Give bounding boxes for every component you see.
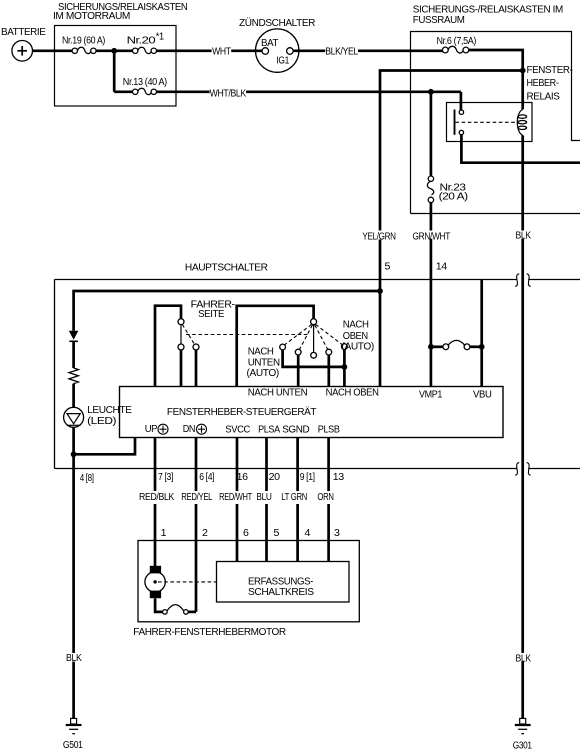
- svg-text:RED/YEL: RED/YEL: [181, 492, 213, 503]
- svg-text:VBU: VBU: [473, 389, 492, 400]
- svg-text:YEL/GRN: YEL/GRN: [362, 231, 395, 242]
- svg-text:Nr.19 (60 A): Nr.19 (60 A): [62, 36, 105, 47]
- svg-text:NACH: NACH: [248, 347, 274, 358]
- svg-text:HAUPTSCHALTER: HAUPTSCHALTER: [185, 263, 268, 274]
- svg-text:9 [1]: 9 [1]: [300, 472, 316, 483]
- svg-text:UNTEN: UNTEN: [248, 358, 280, 369]
- svg-text:SEITE: SEITE: [198, 309, 225, 320]
- svg-text:FENSTERHEBER-STEUERGERÄT: FENSTERHEBER-STEUERGERÄT: [167, 406, 316, 418]
- svg-text:RELAIS: RELAIS: [527, 92, 561, 103]
- svg-text:OBEN: OBEN: [343, 331, 368, 342]
- svg-text:BLK/YEL: BLK/YEL: [325, 47, 358, 58]
- svg-text:16: 16: [237, 472, 249, 483]
- svg-text:HEBER-: HEBER-: [527, 78, 559, 89]
- svg-text:13: 13: [333, 472, 345, 483]
- svg-text:(LED): (LED): [87, 416, 116, 427]
- svg-text:1: 1: [161, 528, 167, 539]
- svg-text:LEUCHTE: LEUCHTE: [87, 405, 132, 416]
- svg-text:UP: UP: [145, 424, 158, 435]
- svg-text:Nr.6 (7,5A): Nr.6 (7,5A): [437, 36, 477, 47]
- svg-text:RED/WHT: RED/WHT: [219, 492, 252, 503]
- svg-text:ERFASSUNGS-: ERFASSUNGS-: [248, 576, 313, 587]
- svg-text:SGND: SGND: [282, 425, 309, 436]
- svg-text:4: 4: [305, 528, 311, 539]
- svg-text:ORN: ORN: [317, 492, 333, 503]
- svg-text:3: 3: [334, 528, 340, 539]
- svg-text:*1: *1: [156, 32, 165, 43]
- svg-text:G501: G501: [63, 740, 83, 750]
- svg-text:WHT/BLK: WHT/BLK: [210, 89, 247, 100]
- svg-text:(AUTO): (AUTO): [247, 368, 279, 379]
- svg-text:RED/BLK: RED/BLK: [139, 492, 175, 503]
- svg-text:4 [8]: 4 [8]: [80, 473, 94, 484]
- svg-text:G301: G301: [513, 740, 533, 750]
- svg-text:5: 5: [385, 262, 391, 273]
- svg-text:(AUTO): (AUTO): [342, 342, 374, 353]
- svg-text:20: 20: [269, 472, 281, 483]
- svg-text:BLK: BLK: [66, 653, 82, 664]
- svg-text:BLU: BLU: [256, 492, 271, 503]
- svg-text:WHT: WHT: [212, 47, 231, 58]
- svg-text:PLSA: PLSA: [258, 425, 280, 436]
- svg-text:NACH OBEN: NACH OBEN: [326, 387, 379, 398]
- svg-text:SCHALTKREIS: SCHALTKREIS: [248, 587, 314, 598]
- svg-text:BLK: BLK: [516, 231, 532, 242]
- svg-text:NACH UNTEN: NACH UNTEN: [248, 388, 308, 399]
- svg-text:FAHRER-FENSTERHEBERMOTOR: FAHRER-FENSTERHEBERMOTOR: [133, 627, 286, 638]
- svg-text:ZÜNDSCHALTER: ZÜNDSCHALTER: [239, 17, 315, 29]
- svg-text:DN: DN: [183, 424, 196, 435]
- svg-text:IM MOTORRAUM: IM MOTORRAUM: [53, 11, 130, 22]
- svg-text:IG1: IG1: [276, 55, 289, 66]
- svg-text:14: 14: [436, 262, 448, 273]
- svg-text:SVCC: SVCC: [225, 425, 250, 436]
- svg-text:LT GRN: LT GRN: [281, 492, 307, 503]
- svg-text:6 [4]: 6 [4]: [199, 472, 215, 483]
- svg-text:(20 A): (20 A): [439, 191, 468, 202]
- svg-text:NACH: NACH: [343, 320, 369, 331]
- svg-text:GRN/WHT: GRN/WHT: [413, 231, 451, 242]
- svg-text:VMP1: VMP1: [419, 389, 443, 400]
- svg-text:BAT: BAT: [261, 38, 278, 49]
- svg-text:FUSSRAUM: FUSSRAUM: [413, 15, 465, 26]
- svg-text:FENSTER-: FENSTER-: [527, 65, 573, 76]
- svg-text:Nr.13 (40 A): Nr.13 (40 A): [123, 77, 167, 88]
- svg-text:7 [3]: 7 [3]: [158, 472, 174, 483]
- svg-text:5: 5: [274, 528, 280, 539]
- svg-text:BLK: BLK: [516, 653, 532, 664]
- svg-text:Nr.20: Nr.20: [127, 36, 157, 47]
- svg-text:PLSB: PLSB: [318, 425, 340, 436]
- svg-text:2: 2: [202, 528, 208, 539]
- svg-text:6: 6: [243, 528, 249, 539]
- svg-text:BATTERIE: BATTERIE: [1, 27, 46, 38]
